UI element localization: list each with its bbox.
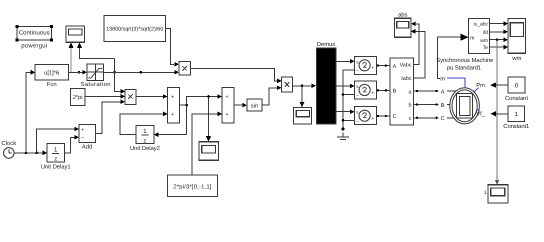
sum block Sum2 bbox=[222, 88, 234, 123]
svg-text:A: A bbox=[441, 90, 445, 96]
svg-text:z: z bbox=[54, 157, 57, 163]
wire Product3 output to Demux (junction) bbox=[293, 83, 317, 88]
svg-text:Demux: Demux bbox=[317, 41, 336, 48]
svg-text:Continuous: Continuous bbox=[19, 29, 50, 36]
svg-text:is_abc: is_abc bbox=[474, 22, 489, 28]
svg-text:A: A bbox=[393, 64, 397, 70]
machine port label Vf_ (blue) bbox=[476, 109, 485, 117]
wire Sum1-Sum2 line branch down to Scope1 (mid scope) bbox=[206, 95, 211, 142]
svg-text:−: − bbox=[356, 93, 359, 99]
svg-text:Constant: Constant bbox=[505, 95, 528, 102]
block Unit Delay1 bbox=[41, 144, 71, 171]
svg-text:Clock: Clock bbox=[1, 140, 16, 147]
wire bus selector out2 to scope wm bbox=[490, 29, 508, 34]
block Unit Delay2 (mirrored) bbox=[130, 126, 160, 153]
svg-text:m: m bbox=[470, 35, 475, 41]
scope abs bbox=[395, 11, 412, 37]
ground symbol bbox=[337, 132, 349, 139]
svg-text:+: + bbox=[371, 90, 374, 96]
svg-text:1: 1 bbox=[484, 190, 487, 196]
machine port label Pm (blue) bbox=[474, 83, 485, 92]
product block Product2 (x) bbox=[125, 89, 136, 104]
three-phase V-I measurement block bbox=[390, 58, 414, 125]
product block Product1 (x) bbox=[179, 61, 190, 75]
wire Add output up to Product2 input 3 bbox=[95, 99, 125, 133]
wire source A output to measurement A bbox=[377, 64, 390, 66]
svg-text:2*pi: 2*pi bbox=[73, 94, 83, 101]
svg-text:m: m bbox=[440, 76, 445, 82]
wire Saturation output branch up to Scope input 2 bbox=[77, 42, 116, 73]
svg-text:wm: wm bbox=[511, 56, 521, 62]
svg-text:b: b bbox=[409, 103, 412, 109]
wire source B output to measurement B bbox=[377, 89, 390, 91]
svg-text:B: B bbox=[393, 89, 397, 95]
svg-text:+: + bbox=[371, 116, 374, 122]
svg-text:Fcn: Fcn bbox=[47, 81, 57, 88]
wire Sum1 output to Sum2 input 1 (junction to Unit Delay2) bbox=[180, 94, 223, 106]
svg-text:Synchronous Machine: Synchronous Machine bbox=[436, 57, 494, 64]
scope wm (4 inputs) bbox=[508, 19, 526, 62]
svg-text:u[1]*6: u[1]*6 bbox=[44, 70, 59, 77]
block Saturation bbox=[81, 64, 111, 88]
wire Product2 output to Sum1 input 1 bbox=[136, 94, 168, 99]
synchronous machine block bbox=[450, 88, 480, 124]
svg-text:abs: abs bbox=[398, 11, 408, 18]
constant block 1 bbox=[503, 106, 529, 130]
wire Fcn output to Saturation bbox=[68, 70, 87, 75]
block Fcn u[1]*6 bbox=[35, 65, 68, 88]
wire Product1 output to Product3 input 1 bbox=[190, 68, 281, 83]
wire Saturation branch down to Product2 input 1 bbox=[115, 59, 125, 94]
wire sin output to Product3 input 2 bbox=[262, 85, 282, 105]
scope Scope3 (below demux) bbox=[294, 107, 312, 124]
powergui block (selected) bbox=[16, 25, 54, 49]
svg-text:a: a bbox=[409, 89, 412, 95]
wire Saturation output to Product1 input 2 bbox=[103, 70, 179, 75]
svg-text:Constant1: Constant1 bbox=[503, 123, 529, 130]
svg-text:+: + bbox=[225, 112, 228, 118]
sum block Sum1 bbox=[168, 88, 180, 123]
wire Fcn output branch up to Scope input 1 bbox=[69, 42, 81, 73]
wire bus selector out4 to scope wm bbox=[490, 45, 508, 50]
wire Demux out1 to source A bbox=[336, 59, 354, 64]
clock block Clock bbox=[1, 140, 16, 158]
svg-text:+: + bbox=[171, 95, 174, 101]
svg-text:+: + bbox=[371, 66, 374, 72]
wire Sum1 junction down into Unit Delay2 input (right side) bbox=[154, 105, 187, 137]
controlled voltage source A bbox=[354, 56, 376, 74]
svg-text:C: C bbox=[441, 116, 445, 122]
svg-text:z: z bbox=[143, 138, 146, 144]
svg-text:pu Standard1: pu Standard1 bbox=[447, 65, 481, 72]
scope Scope (top-left) bbox=[66, 26, 85, 42]
wire Unit Delay1 output to Add input - bbox=[65, 135, 80, 153]
wire bus selector out3 (wm) to scope wm with branch junction bbox=[490, 37, 508, 42]
bus selector block bbox=[469, 19, 490, 54]
wire negative rail of sources to ground bbox=[342, 70, 355, 131]
svg-text:Saturation: Saturation bbox=[81, 81, 111, 88]
svg-text:Vf_: Vf_ bbox=[476, 110, 485, 117]
svg-text:13800/sqrt(3)*sqrt(2)/60: 13800/sqrt(3)*sqrt(2)/60 bbox=[106, 27, 163, 33]
svg-text:Unit Delay2: Unit Delay2 bbox=[130, 145, 160, 152]
svg-text:+: + bbox=[81, 127, 84, 133]
demux block Demux bbox=[316, 41, 336, 124]
svg-text:powergui: powergui bbox=[21, 42, 47, 49]
wire measurement a to machine A bbox=[414, 90, 457, 96]
svg-text:0: 0 bbox=[515, 83, 519, 90]
svg-text:Unit Delay1: Unit Delay1 bbox=[41, 164, 71, 171]
wire wm branch down to Scope4 bbox=[495, 40, 499, 185]
wire clock net into Fcn input bbox=[26, 70, 35, 75]
svg-text:wm: wm bbox=[480, 38, 488, 44]
svg-text:ifd: ifd bbox=[483, 30, 489, 36]
wire 2*pi to Product2 input 2 bbox=[85, 94, 125, 99]
wire bus selector out1 to scope wm bbox=[490, 21, 508, 26]
svg-text:Pm: Pm bbox=[476, 83, 485, 89]
product block Product3 (x) bbox=[282, 77, 293, 92]
constant block 2*pi bbox=[71, 89, 85, 106]
svg-text:Vabc: Vabc bbox=[400, 63, 412, 69]
controlled voltage source C bbox=[354, 107, 376, 125]
wire source C output to measurement C bbox=[377, 115, 390, 117]
wire constant 13800 to Product1 input 1 bbox=[166, 29, 180, 67]
svg-text:−: − bbox=[356, 69, 359, 75]
block Trigonometric Function sin bbox=[247, 99, 262, 111]
label Synchronous Machine pu Standard1 bbox=[436, 57, 494, 71]
constant block 0 bbox=[505, 77, 528, 102]
svg-text:c: c bbox=[409, 116, 412, 122]
constant block 2*pi/3*[0,-1,1] bbox=[168, 175, 218, 197]
svg-text:+: + bbox=[171, 112, 174, 118]
controlled voltage source B bbox=[354, 81, 376, 99]
wire Sum2 output to sin bbox=[234, 103, 247, 108]
scope Scope4 (bottom right) bbox=[484, 185, 508, 203]
svg-text:Te: Te bbox=[483, 45, 489, 51]
machine port label m (blue) bbox=[440, 76, 465, 88]
svg-text:−: − bbox=[356, 119, 359, 125]
wire constant 0 to machine Pm bbox=[490, 82, 508, 87]
wire Demux out3 to source C bbox=[336, 109, 354, 114]
svg-text:B: B bbox=[441, 103, 445, 109]
wire Demux out2 to source B bbox=[336, 84, 354, 89]
wire Vabc output up to abs scope input 1 bbox=[411, 21, 419, 64]
wire measurement c to machine C bbox=[414, 116, 454, 122]
wire constant 1 to machine Vf bbox=[490, 111, 508, 116]
scope Scope1 (middle) bbox=[199, 142, 219, 160]
svg-text:Iabc: Iabc bbox=[401, 76, 411, 82]
sum block Add bbox=[79, 125, 95, 151]
constant block 13800/sqrt(3)*sqrt(2)/60 bbox=[104, 15, 166, 41]
wire 2*pi/3 constant up to Sum2 input 2 bbox=[192, 112, 222, 175]
wire Unit Delay2 output to Sum1 input 2 bbox=[120, 112, 167, 135]
svg-text:sin: sin bbox=[251, 103, 258, 110]
wire Iabc output up to abs scope input 2 bbox=[411, 29, 425, 78]
svg-text:1: 1 bbox=[515, 111, 519, 118]
svg-text:+: + bbox=[225, 95, 228, 101]
svg-text:−: − bbox=[81, 136, 84, 142]
svg-text:2*pi/3*[0,-1,1]: 2*pi/3*[0,-1,1] bbox=[173, 183, 211, 190]
svg-text:Add: Add bbox=[82, 143, 92, 150]
wire Clock branch up to Fcn input bbox=[25, 72, 27, 153]
wire measurement b to machine B bbox=[414, 103, 451, 109]
svg-text:C: C bbox=[393, 114, 397, 120]
wire Product3 branch down to Scope3 bbox=[300, 86, 305, 108]
wire machine m output up to bus selector bbox=[438, 34, 469, 79]
wire Clock to Unit Delay1 with branches bbox=[14, 151, 47, 156]
wire Clock branch up to Add input + bbox=[37, 127, 79, 153]
